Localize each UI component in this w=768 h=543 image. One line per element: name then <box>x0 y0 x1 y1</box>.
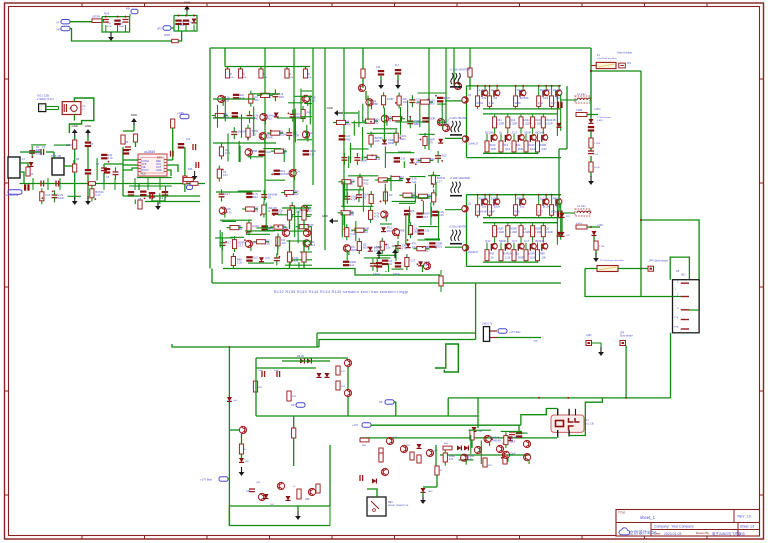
svg-text:1.02R: 1.02R <box>497 230 504 234</box>
svg-text:BC546: BC546 <box>280 172 289 176</box>
svg-text:JPC: JPC <box>157 27 162 31</box>
svg-text:R12: R12 <box>309 152 314 156</box>
svg-text:D3: D3 <box>389 262 393 266</box>
svg-text:10uF: 10uF <box>265 150 271 154</box>
svg-text:330R: 330R <box>429 116 435 120</box>
svg-text:GND: GND <box>533 341 538 343</box>
svg-text:560R: 560R <box>361 159 367 163</box>
svg-text:R45: R45 <box>515 210 521 214</box>
svg-text:JP4 Slow heater: JP4 Slow heater <box>649 259 668 263</box>
svg-text:22k: 22k <box>238 227 243 231</box>
svg-text:0.5x20mm fast-blow: 0.5x20mm fast-blow <box>597 57 617 60</box>
svg-text:R45: R45 <box>489 252 495 256</box>
svg-text:R: R <box>230 73 232 76</box>
svg-text:R88: R88 <box>252 149 257 153</box>
svg-text:1.02R: 1.02R <box>510 121 517 125</box>
svg-text:R45: R45 <box>491 147 496 151</box>
svg-text:1.13W: 1.13W <box>594 143 601 145</box>
svg-text:R: R <box>243 73 245 76</box>
svg-text:C17: C17 <box>437 179 442 183</box>
svg-text:C17: C17 <box>95 193 100 197</box>
svg-text:1N4148: 1N4148 <box>477 210 487 214</box>
svg-text:Q12: Q12 <box>542 147 548 151</box>
svg-text:C7: C7 <box>90 142 94 146</box>
svg-text:R88: R88 <box>307 111 312 115</box>
svg-text:GND: GND <box>85 124 91 128</box>
svg-text:100R: 100R <box>307 223 313 227</box>
svg-text:D3: D3 <box>252 240 256 244</box>
svg-text:330R: 330R <box>36 152 42 156</box>
svg-text:47k: 47k <box>351 197 356 201</box>
svg-text:100n: 100n <box>551 210 558 214</box>
svg-text:22k: 22k <box>386 245 391 249</box>
svg-text:ERR: ERR <box>157 158 162 160</box>
svg-text:C17: C17 <box>423 215 428 219</box>
svg-text:Q12: Q12 <box>530 147 536 151</box>
svg-text:Drawn By:: Drawn By: <box>696 531 710 535</box>
svg-text:GND: GND <box>586 334 592 337</box>
svg-text:47k: 47k <box>428 141 433 145</box>
svg-text:2.2k: 2.2k <box>400 156 406 160</box>
svg-text:U 220v HEATER: U 220v HEATER <box>449 226 468 229</box>
svg-text:L2 1uH: L2 1uH <box>577 204 585 208</box>
svg-text:R12: R12 <box>363 230 368 234</box>
svg-text:200R: 200R <box>164 34 170 37</box>
svg-text:C24: C24 <box>376 66 381 69</box>
svg-text:Short heater: Short heater <box>617 51 632 55</box>
svg-text:10k: 10k <box>482 205 487 209</box>
svg-text:C17: C17 <box>223 173 228 177</box>
svg-text:10uF: 10uF <box>509 440 515 444</box>
svg-text:BC546: BC546 <box>485 130 494 134</box>
svg-text:560R: 560R <box>388 141 394 145</box>
svg-text:1k: 1k <box>491 88 495 92</box>
svg-text:10k: 10k <box>542 256 547 260</box>
svg-text:1.02R: 1.02R <box>545 121 552 125</box>
svg-text:2SA4137: 2SA4137 <box>468 142 479 145</box>
svg-text:1.02R: 1.02R <box>497 121 504 125</box>
svg-text:R45: R45 <box>518 147 523 151</box>
svg-text:R12: R12 <box>267 117 272 121</box>
svg-text:U 220v HEATER: U 220v HEATER <box>450 67 470 71</box>
svg-text:330R: 330R <box>524 130 531 134</box>
svg-text:2u2: 2u2 <box>350 263 355 267</box>
svg-text:uc2845: uc2845 <box>144 150 155 154</box>
svg-text:10uF: 10uF <box>180 25 186 27</box>
svg-text:2.2k: 2.2k <box>424 229 430 233</box>
svg-text:2.2k: 2.2k <box>375 157 381 161</box>
svg-text:2.2k: 2.2k <box>489 101 495 105</box>
svg-text:100R: 100R <box>266 136 272 140</box>
svg-text:R95: R95 <box>305 498 310 501</box>
svg-text:Q5: Q5 <box>308 209 312 213</box>
svg-text:C21: C21 <box>517 88 523 92</box>
svg-text:Company: Your Company: Company: Your Company <box>654 525 694 529</box>
svg-text:REV 1.0: REV 1.0 <box>738 515 752 519</box>
svg-text:R: R <box>308 73 310 76</box>
svg-text:BC546: BC546 <box>536 130 545 134</box>
svg-text:10uF: 10uF <box>489 210 496 214</box>
svg-text:1.02R: 1.02R <box>523 121 530 125</box>
svg-text:47k: 47k <box>282 151 287 155</box>
svg-text:47k: 47k <box>482 96 487 100</box>
svg-text:330R: 330R <box>540 143 547 147</box>
svg-text:R12: R12 <box>374 121 379 125</box>
svg-text:VT: VT <box>56 21 60 25</box>
svg-text:SP: SP <box>379 400 383 404</box>
svg-text:2SA4137: 2SA4137 <box>468 251 479 254</box>
svg-text:VIN: VIN <box>56 28 60 32</box>
svg-text:R12: R12 <box>387 229 392 233</box>
svg-text:R88: R88 <box>349 212 354 216</box>
svg-text:Q12: Q12 <box>485 239 491 243</box>
svg-text:C17: C17 <box>238 244 243 248</box>
svg-text:4.7k: 4.7k <box>468 457 474 461</box>
svg-text:2023-01-03: 2023-01-03 <box>664 532 681 536</box>
svg-text:电子JUNO与飞鸟演示: 电子JUNO与飞鸟演示 <box>712 531 746 536</box>
svg-text:RED: RED <box>428 491 433 493</box>
svg-text:GND: GND <box>376 245 382 249</box>
svg-text:R12: R12 <box>364 181 369 185</box>
svg-text:R12: R12 <box>253 195 258 199</box>
svg-text:C17: C17 <box>226 241 231 245</box>
svg-text:47k: 47k <box>254 98 259 102</box>
svg-text:HD1: HD1 <box>681 275 686 277</box>
svg-text:2.2k: 2.2k <box>505 256 511 260</box>
svg-text:100R: 100R <box>387 97 393 101</box>
svg-text:C21: C21 <box>412 180 417 184</box>
svg-text:Q12: Q12 <box>538 101 544 105</box>
svg-text:100n: 100n <box>344 122 350 126</box>
svg-text:2u2: 2u2 <box>253 255 258 259</box>
svg-text:R1.4k: R1.4k <box>594 167 601 169</box>
svg-text:C17: C17 <box>524 239 530 243</box>
svg-text:4.7k: 4.7k <box>108 156 114 160</box>
svg-text:GND: GND <box>184 1 190 5</box>
svg-text:BC546: BC546 <box>536 239 545 243</box>
svg-text:4.7k: 4.7k <box>226 210 232 214</box>
svg-text:BC546: BC546 <box>520 96 529 100</box>
svg-text:100n: 100n <box>429 157 435 161</box>
svg-text:GND: GND <box>71 124 77 128</box>
svg-text:BC546: BC546 <box>279 133 288 137</box>
svg-text:560R: 560R <box>499 239 506 243</box>
svg-text:U 220v HEATER: U 220v HEATER <box>450 176 470 180</box>
svg-text:2.2k: 2.2k <box>237 261 243 265</box>
svg-text:GND: GND <box>156 169 162 172</box>
svg-text:R88: R88 <box>517 197 523 201</box>
svg-text:2u2: 2u2 <box>540 197 545 201</box>
svg-text:sheet_1: sheet_1 <box>640 515 656 520</box>
svg-text:470uF: 470uF <box>393 273 400 276</box>
svg-text:TITLE:: TITLE: <box>618 511 626 515</box>
svg-text:2u2: 2u2 <box>281 241 286 245</box>
svg-text:Q12: Q12 <box>505 147 511 151</box>
svg-text:RELAY TERMISTOR: RELAY TERMISTOR <box>388 504 409 507</box>
svg-text:D3: D3 <box>389 193 393 197</box>
svg-text:1.02R: 1.02R <box>545 230 552 234</box>
svg-text:22k: 22k <box>309 131 314 135</box>
svg-text:10k: 10k <box>403 100 408 104</box>
svg-text:560R: 560R <box>350 248 356 252</box>
svg-text:C11: C11 <box>186 138 191 141</box>
svg-text:C17: C17 <box>45 193 50 197</box>
svg-text:0.82R: 0.82R <box>597 120 603 122</box>
svg-text:GND: GND <box>131 113 137 117</box>
svg-text:R12: R12 <box>442 153 447 157</box>
svg-text:C21: C21 <box>439 213 444 217</box>
svg-text:2.2k: 2.2k <box>265 241 271 245</box>
svg-text:10k: 10k <box>516 143 521 147</box>
svg-text:C Slow Heater: C Slow Heater <box>597 116 611 119</box>
svg-text:470uF: 470uF <box>373 273 380 276</box>
svg-text:+17V Bias: +17V Bias <box>200 478 213 482</box>
svg-text:100R: 100R <box>491 197 498 201</box>
svg-text:2.2k: 2.2k <box>479 88 485 92</box>
svg-text:10uF: 10uF <box>553 88 560 92</box>
svg-text:GND: GND <box>327 106 333 110</box>
svg-text:40h: 40h <box>126 8 131 11</box>
svg-text:VCC: VCC <box>141 173 146 176</box>
svg-text:R45: R45 <box>279 95 284 99</box>
svg-text:C4: C4 <box>296 170 300 174</box>
svg-text:22k: 22k <box>514 435 519 439</box>
svg-text:100n: 100n <box>515 101 522 105</box>
svg-text:2u2: 2u2 <box>520 205 525 209</box>
svg-text:R101: R101 <box>489 143 496 147</box>
svg-text:R101: R101 <box>479 197 486 201</box>
svg-text:R88: R88 <box>373 102 378 106</box>
svg-text:1.02R: 1.02R <box>510 230 517 234</box>
svg-text:R101: R101 <box>252 224 259 228</box>
svg-text:RE1: RE1 <box>388 501 393 504</box>
svg-text:C17: C17 <box>425 248 430 252</box>
svg-text:+17V Bias: +17V Bias <box>509 331 521 334</box>
svg-text:C17: C17 <box>512 130 518 134</box>
svg-text:1875R: 1875R <box>92 15 100 19</box>
svg-text:+OPs: +OPs <box>597 223 604 227</box>
svg-text:F2 0.5x20mm slow-blow: F2 0.5x20mm slow-blow <box>600 260 624 262</box>
svg-text:立创设计EDA: 立创设计EDA <box>629 529 658 536</box>
svg-text:Fb-B: Fb-B <box>104 13 110 16</box>
svg-text:10uF: 10uF <box>258 370 264 372</box>
svg-text:R: R <box>290 73 292 76</box>
svg-text:100n: 100n <box>494 205 501 209</box>
svg-text:+17V: +17V <box>352 423 358 427</box>
svg-text:R45: R45 <box>345 137 350 141</box>
svg-text:1.02R: 1.02R <box>523 230 530 234</box>
svg-text:R88: R88 <box>399 229 404 233</box>
svg-text:Slow heater: Slow heater <box>620 335 633 338</box>
svg-text:+OPs: +OPs <box>594 107 601 111</box>
svg-text:GND: GND <box>322 214 328 218</box>
svg-text:100R: 100R <box>293 134 299 138</box>
svg-text:R101: R101 <box>528 143 535 147</box>
svg-text:4.7k: 4.7k <box>265 256 271 260</box>
svg-text:GND: GND <box>392 244 398 248</box>
svg-text:L1 1uH: L1 1uH <box>577 92 585 96</box>
svg-text:4.7k: 4.7k <box>374 214 380 218</box>
svg-text:SP: SP <box>291 403 295 407</box>
svg-text:C17: C17 <box>538 210 544 214</box>
svg-text:2.19k: 2.19k <box>599 246 605 248</box>
svg-text:1N4148: 1N4148 <box>540 88 551 92</box>
svg-text:0.82R: 0.82R <box>576 223 582 225</box>
svg-text:R88: R88 <box>540 252 546 256</box>
svg-text:0.82R: 0.82R <box>576 109 583 112</box>
svg-text:20uF: 20uF <box>274 370 280 372</box>
svg-text:C4: C4 <box>268 196 272 200</box>
svg-text:D3: D3 <box>494 96 498 100</box>
svg-text:47uF: 47uF <box>107 26 113 28</box>
svg-text:2.4MHz (3.3V): 2.4MHz (3.3V) <box>37 97 54 101</box>
svg-text:Q5: Q5 <box>411 209 415 213</box>
svg-text:GND-17V: GND-17V <box>482 323 493 326</box>
svg-text:R15: R15 <box>188 168 193 171</box>
svg-text:100n: 100n <box>428 102 434 106</box>
svg-text:560R: 560R <box>444 96 450 100</box>
svg-text:10uF: 10uF <box>119 26 125 28</box>
svg-text:C17: C17 <box>551 101 557 105</box>
svg-text:C21: C21 <box>543 96 549 100</box>
svg-text:R132 R135 R140 R144 R134 R133: R132 R135 R140 R144 R134 R133 semakin ke… <box>274 290 408 294</box>
svg-text:R45: R45 <box>375 139 380 143</box>
svg-text:10uF: 10uF <box>509 451 515 455</box>
svg-text:47k: 47k <box>449 457 454 461</box>
svg-text:560R: 560R <box>518 256 524 260</box>
svg-text:LED: LED <box>245 461 250 463</box>
svg-text:R12: R12 <box>503 143 509 147</box>
svg-text:U 220v HEATER: U 220v HEATER <box>449 117 468 120</box>
svg-text:JP1: JP1 <box>627 62 632 65</box>
svg-text:10uF: 10uF <box>293 192 299 196</box>
svg-text:R101: R101 <box>477 101 484 105</box>
svg-text:100R: 100R <box>528 252 535 256</box>
svg-text:C17: C17 <box>410 258 415 262</box>
svg-text:C60: C60 <box>246 490 251 493</box>
svg-text:Sheet: 1/1: Sheet: 1/1 <box>740 525 755 529</box>
svg-text:C17: C17 <box>512 239 518 243</box>
svg-text:10uF: 10uF <box>58 196 64 200</box>
svg-text:R101: R101 <box>436 245 443 249</box>
